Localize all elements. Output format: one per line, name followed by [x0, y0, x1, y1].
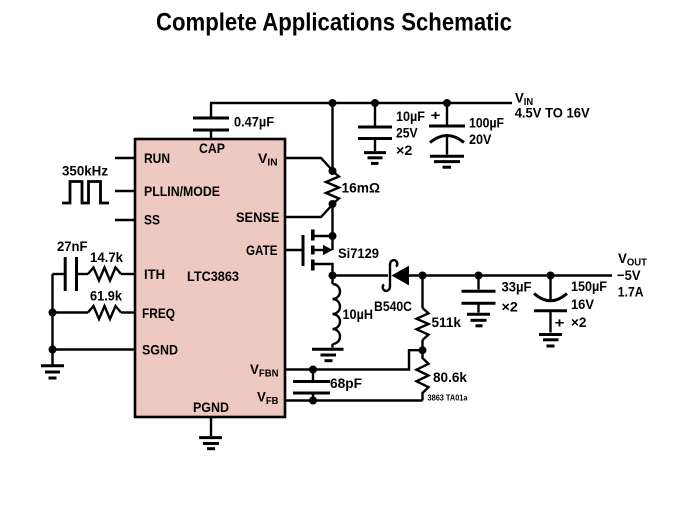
node 10uF junction	[371, 99, 379, 107]
svg-text:×2: ×2	[396, 142, 413, 158]
svg-text:33µF: 33µF	[502, 279, 532, 295]
channel segment bottom	[311, 260, 315, 271]
resistor R 511k	[417, 276, 429, 351]
wire FREQ branch left	[53, 311, 89, 313]
resistor R 80.6k	[417, 350, 429, 400]
node MOSFET source junction	[329, 232, 337, 240]
capacitor C 0.47uF	[193, 103, 229, 139]
svg-text:PGND: PGND	[193, 399, 229, 415]
wire VFB net	[285, 399, 423, 401]
node FREQ junction	[49, 309, 57, 317]
svg-text:61.9k: 61.9k	[90, 288, 122, 304]
svg-text:+: +	[431, 107, 441, 123]
svg-text:150µF: 150µF	[571, 278, 607, 294]
node feedback junction	[419, 346, 427, 354]
svg-text:3863 TA01a: 3863 TA01a	[428, 394, 469, 403]
inductor L 10uH	[333, 276, 341, 348]
svg-text:10µF: 10µF	[396, 108, 425, 124]
svg-text:FREQ: FREQ	[142, 305, 175, 321]
svg-text:GATE: GATE	[246, 242, 278, 258]
channel segment middle	[311, 246, 315, 255]
svg-text:16mΩ: 16mΩ	[342, 180, 381, 196]
svg-text:Si7129: Si7129	[338, 245, 379, 261]
svg-text:68pF: 68pF	[330, 375, 362, 391]
square wave source symbol	[62, 182, 109, 204]
svg-text:16V: 16V	[571, 296, 595, 312]
wire GATE pin stub	[285, 249, 302, 251]
source lead	[315, 235, 333, 237]
svg-text:80.6k: 80.6k	[433, 369, 467, 385]
wire left vertical bus	[51, 274, 53, 350]
node top rail junction A	[329, 99, 337, 107]
capacitor C 150uF 16V polarized	[534, 276, 567, 333]
svg-text:100µF: 100µF	[469, 115, 504, 131]
svg-text:Complete Applications Schemati: Complete Applications Schematic	[156, 9, 512, 37]
node sense resistor top	[329, 167, 337, 175]
svg-text:×2: ×2	[571, 314, 587, 330]
node 33uF junction	[475, 272, 483, 280]
svg-text:PLLIN/MODE: PLLIN/MODE	[144, 183, 220, 199]
wire switch node to diode	[333, 274, 389, 276]
wire SGND line	[53, 348, 136, 350]
wire PLLIN/MODE pin stub	[115, 190, 135, 192]
wire diode anode to output rail	[409, 274, 612, 276]
node 511k top junction	[419, 272, 427, 280]
capacitor C 68pF	[293, 370, 330, 401]
svg-text:SS: SS	[144, 212, 160, 228]
resistor R 61.9k	[88, 306, 121, 319]
svg-text:4.5V TO 16V: 4.5V TO 16V	[515, 105, 591, 121]
wire resistor to FREQ pin	[121, 311, 135, 313]
wire SS pin stub	[115, 219, 135, 221]
resistor R 16mOhm	[326, 171, 339, 204]
svg-text:27nF: 27nF	[57, 238, 88, 254]
svg-text:20V: 20V	[469, 131, 492, 147]
svg-text:−5V: −5V	[617, 267, 641, 283]
svg-text:350kHz: 350kHz	[62, 163, 108, 179]
svg-text:14.7k: 14.7k	[90, 249, 123, 265]
svg-text:0.47µF: 0.47µF	[234, 114, 274, 130]
gate bar	[302, 235, 305, 266]
ground 33uF	[467, 314, 490, 326]
wire vertical VIN feed	[331, 103, 333, 171]
svg-text:ITH: ITH	[144, 266, 165, 282]
svg-text:10µH: 10µH	[343, 306, 374, 322]
svg-text:×2: ×2	[502, 299, 519, 315]
ground inductor	[312, 349, 344, 360]
svg-text:CAP: CAP	[199, 140, 225, 156]
wire resistor to ITH pin	[121, 273, 135, 275]
ground PGND	[199, 417, 222, 449]
svg-text:VOUT: VOUT	[618, 250, 647, 269]
node 150uF junction	[547, 272, 555, 280]
svg-text:B540C: B540C	[374, 298, 412, 314]
capacitor C 100uF 20V polarized	[429, 103, 465, 155]
svg-text:LTC3863: LTC3863	[187, 268, 239, 284]
capacitor C 10uF 25V x2	[358, 103, 392, 151]
node 68pF top junction	[309, 366, 317, 374]
channel segment top	[311, 230, 315, 241]
resistor R 14.7k	[88, 268, 121, 281]
svg-text:+: +	[555, 315, 565, 331]
capacitor C 33uF x2	[462, 276, 496, 313]
node sense resistor bottom	[329, 200, 337, 208]
svg-text:511k: 511k	[432, 314, 462, 330]
wire cap to resistor	[77, 273, 89, 275]
ground 10uF	[364, 153, 386, 164]
wire ITH to cap	[53, 273, 65, 275]
node 68pF bottom junction	[309, 397, 317, 405]
svg-text:RUN: RUN	[144, 150, 170, 166]
svg-text:1.7A: 1.7A	[618, 284, 644, 300]
drain lead	[315, 264, 333, 276]
svg-text:SGND: SGND	[142, 342, 178, 358]
node 100uF junction	[443, 99, 451, 107]
wire top rail VIN	[210, 102, 512, 104]
svg-text:25V: 25V	[396, 125, 418, 141]
ground 150uF	[539, 335, 562, 347]
node switch node	[329, 272, 337, 280]
capacitor C 27nF	[64, 257, 67, 291]
diode D1 B540C schottky	[383, 260, 409, 291]
ground SGND	[41, 350, 64, 379]
IC U1 LTC3863 body	[135, 139, 285, 417]
ground 100uF	[430, 156, 464, 167]
wire VIN pin to sense resistor top	[285, 158, 333, 171]
svg-text:SENSE: SENSE	[236, 209, 280, 225]
node SGND junction	[49, 346, 57, 354]
wire sense bottom to MOSFET source	[331, 204, 333, 250]
body arrow	[315, 249, 325, 251]
wire SENSE pin to sense resistor bottom	[285, 205, 333, 218]
wire RUN pin stub	[115, 157, 135, 159]
transistor Q1 Si7129 P-MOSFET	[285, 230, 333, 276]
wire VFBN net	[285, 350, 423, 369]
